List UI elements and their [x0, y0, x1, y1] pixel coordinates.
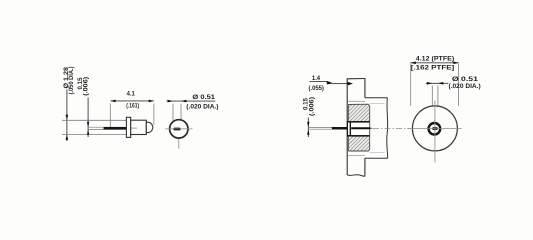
wire lead dark shank	[104, 127, 127, 130]
end view circle (pin head)	[170, 120, 188, 138]
dimension line 0.15	[87, 98, 89, 138]
wire lead dark shank right view	[332, 127, 347, 130]
extension lines Ø0.51 left view	[173, 104, 181, 121]
centre line vertical left circle	[178, 139, 180, 149]
svg-text:Ø 0.51: Ø 0.51	[452, 76, 479, 83]
svg-text:(.050 DIA.): (.050 DIA.)	[68, 67, 75, 95]
end view pin tip (dark)	[432, 127, 438, 130]
svg-text:1.4: 1.4	[312, 75, 321, 82]
dimension 1.4 (.055)	[309, 75, 354, 92]
svg-text:(.020 DIA.): (.020 DIA.)	[449, 83, 481, 90]
pin head in section	[347, 122, 350, 136]
centre line vertical right circle	[434, 101, 436, 163]
dimension line Ø1.28	[66, 90, 69, 142]
svg-text:(.161): (.161)	[126, 103, 139, 110]
PTFE bushing lower section (hatched)	[348, 136, 369, 151]
dimension 0.15 (.006) label	[77, 77, 90, 96]
svg-text:4.1: 4.1	[127, 90, 136, 97]
dimension Ø0.51 (.020 DIA.) right view	[426, 76, 481, 90]
extension line right of 4.1	[153, 103, 155, 124]
bushing bore lower edge (thick)	[350, 135, 369, 137]
svg-text:(.006): (.006)	[308, 97, 315, 116]
rear block break line	[386, 98, 389, 159]
svg-text:(.055): (.055)	[309, 85, 324, 92]
panel left edge	[346, 79, 348, 175]
extension line left of 4.1	[109, 103, 111, 127]
extension lines body diameter	[62, 120, 126, 134]
pin tip tail line	[371, 127, 373, 129]
panel bottom break edge	[347, 175, 365, 177]
panel hole faint edges	[348, 101, 365, 155]
PTFE bushing upper section (hatched)	[348, 104, 369, 122]
dimension Ø0.51 (.020 DIA.) left view	[167, 94, 219, 111]
flange	[126, 117, 130, 137]
bullet nose	[146, 122, 153, 132]
end view outer circle (PTFE bushing)	[412, 106, 457, 151]
centre line horizontal left circle	[165, 128, 192, 130]
dimension 4.1 (.161)	[110, 90, 153, 109]
panel top edge	[347, 78, 366, 80]
end view pin head ring	[429, 123, 441, 135]
dimension Ø1.28 (.050 DIA.) label	[63, 67, 75, 95]
pin tip end face (dark)	[173, 128, 180, 131]
wire lead extension lines right view	[308, 127, 332, 129]
svg-text:4.12 (PTFE): 4.12 (PTFE)	[416, 56, 454, 63]
centre line horizontal right circle	[407, 127, 461, 129]
svg-text:(.020 DIA.): (.020 DIA.)	[186, 103, 218, 110]
dimension 4.12 (PTFE)	[411, 56, 459, 72]
panel right edge	[364, 79, 366, 177]
extension lines 4.12	[411, 64, 459, 106]
body cylinder	[131, 120, 147, 134]
svg-text:Ø 0.51: Ø 0.51	[192, 94, 215, 101]
svg-text:(.006): (.006)	[83, 77, 90, 96]
wire lead (thin rod edges)	[88, 127, 126, 129]
dimension 0.15 (.006) label right view	[302, 97, 315, 116]
centre line dash inside body	[131, 127, 137, 129]
bushing outline	[348, 104, 369, 151]
extension lines Ø0.51 right view	[432, 86, 438, 123]
rear block hole faint edges	[370, 104, 385, 153]
rear block bottom edge	[365, 157, 388, 159]
pin shank in bore (dark)	[351, 127, 371, 129]
svg-text:[.162 PTFE]: [.162 PTFE]	[411, 65, 454, 72]
rear block top edge	[365, 97, 388, 99]
centre line between section and end view	[373, 127, 411, 129]
bushing bore upper edge (thick)	[350, 121, 369, 123]
dimension line 0.15 right view	[307, 118, 309, 138]
